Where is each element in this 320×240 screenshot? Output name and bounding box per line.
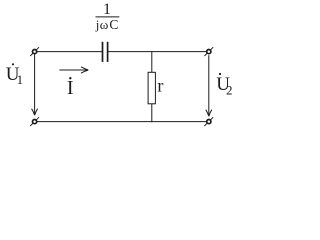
U1 voltage arrow xyxy=(32,55,38,116)
svg-text:r: r xyxy=(157,76,163,96)
label I with dot xyxy=(67,77,74,99)
wire top-right segment xyxy=(108,51,207,53)
svg-text:ω: ω xyxy=(100,17,109,32)
wire resistor top lead xyxy=(151,52,153,73)
capacitor C left plate xyxy=(102,42,104,62)
current arrow I xyxy=(59,67,88,73)
wire resistor bottom lead xyxy=(151,104,153,122)
svg-text:j: j xyxy=(95,17,100,32)
resistor r body xyxy=(148,72,155,104)
label U2 with dot xyxy=(216,73,232,97)
svg-text:C: C xyxy=(109,17,118,32)
node terminal bottom-right xyxy=(204,117,213,126)
node terminal top-left xyxy=(30,47,39,56)
svg-text:1: 1 xyxy=(17,72,24,87)
label U1 with dot xyxy=(6,63,23,87)
node terminal bottom-left xyxy=(30,117,39,126)
wire bottom xyxy=(37,121,206,123)
svg-text:2: 2 xyxy=(226,82,233,97)
U2 voltage arrow xyxy=(206,55,212,116)
svg-text:I: I xyxy=(67,77,74,99)
capacitor C right plate xyxy=(107,42,109,62)
svg-text:1: 1 xyxy=(103,1,111,18)
fraction bar of 1/jwC xyxy=(96,16,120,18)
node terminal top-right xyxy=(204,47,213,56)
wire top-left segment xyxy=(37,51,102,53)
